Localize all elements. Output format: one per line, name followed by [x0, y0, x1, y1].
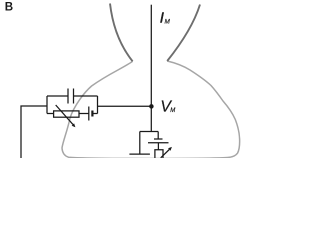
svg-text:I: I — [160, 10, 164, 27]
svg-text:B: B — [5, 1, 13, 14]
svg-text:M: M — [165, 19, 171, 26]
svg-text:M: M — [170, 108, 175, 114]
